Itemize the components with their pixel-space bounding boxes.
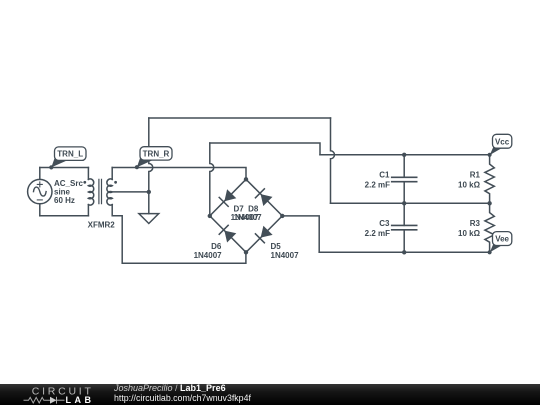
node TRN_R flag	[135, 147, 172, 170]
svg-text:http://circuitlab.com/ch7wnuv3: http://circuitlab.com/ch7wnuv3fkp4f	[114, 393, 251, 403]
svg-text:D6: D6	[211, 242, 222, 251]
logo wire+resistor+diode	[24, 397, 65, 404]
svg-text:C3: C3	[379, 219, 390, 228]
wire right vertical with hop to middle rail	[331, 118, 335, 203]
junction dots	[147, 153, 492, 255]
diode bridge edges	[210, 179, 282, 252]
svg-text:2.2 mF: 2.2 mF	[365, 180, 390, 189]
wire AC loop right top lead	[87, 168, 89, 180]
svg-text:TRN_L: TRN_L	[57, 150, 83, 159]
transformer XFMR2	[88, 179, 112, 205]
svg-text:1N4007: 1N4007	[271, 251, 300, 260]
capacitor C1	[392, 155, 417, 204]
svg-text:D5: D5	[271, 242, 282, 251]
svg-text:Vee: Vee	[495, 235, 509, 244]
svg-text:C1: C1	[379, 170, 390, 179]
wire XFMR secondary top lead	[111, 168, 113, 180]
wire bridge right to bottom rail	[282, 216, 319, 252]
wire XFMR secondary top to bridge top	[112, 168, 246, 180]
ground	[139, 214, 159, 224]
svg-text:R3: R3	[470, 219, 481, 228]
labels	[54, 170, 481, 259]
wire top long	[149, 117, 331, 119]
diode D7	[219, 189, 237, 207]
wire AC loop left vertical bottom	[39, 204, 41, 216]
svg-text:2.2 mF: 2.2 mF	[365, 229, 390, 238]
svg-text:10 kΩ: 10 kΩ	[458, 229, 481, 238]
svg-text:1N4007: 1N4007	[194, 251, 223, 260]
svg-text:LAB: LAB	[66, 395, 95, 405]
svg-text:XFMR2: XFMR2	[88, 220, 116, 229]
svg-text:60 Hz: 60 Hz	[54, 196, 75, 205]
wire ground stub	[148, 192, 150, 214]
diode D5	[255, 226, 273, 244]
wire second top	[210, 143, 320, 155]
wire XFMR secondary bottom lead	[112, 205, 246, 264]
node Vee flag	[488, 232, 512, 255]
svg-text:R1: R1	[470, 170, 481, 179]
svg-text:JoshuaPrecilio / Lab1_Pre6: JoshuaPrecilio / Lab1_Pre6	[113, 383, 226, 393]
svg-text:TRN_R: TRN_R	[143, 149, 170, 158]
wire top rail	[320, 154, 490, 156]
resistor R1	[485, 155, 494, 204]
diode D8	[255, 188, 273, 206]
wire AC loop bottom lead	[87, 205, 89, 216]
wire bridge left vertical with hop	[210, 143, 214, 216]
node Vcc flag	[488, 134, 512, 157]
wire bottom rail	[319, 251, 489, 253]
wire AC loop bottom	[40, 215, 89, 217]
AC source AC_Src	[28, 179, 52, 203]
wire AC loop top	[40, 167, 89, 169]
capacitor C3	[392, 203, 417, 252]
diode D6	[219, 225, 237, 243]
svg-text:10 kΩ: 10 kΩ	[458, 180, 481, 189]
footer bar	[0, 383, 540, 405]
resistor R3	[485, 203, 494, 252]
wire middle rail	[331, 202, 490, 204]
node TRN_L flag	[49, 147, 86, 170]
transformer phase dots	[83, 181, 117, 184]
svg-text:Vcc: Vcc	[495, 137, 510, 146]
svg-text:1N4007: 1N4007	[234, 213, 263, 222]
wire TRN_R vertical with hop	[149, 118, 153, 192]
wire XFMR center tap	[112, 191, 149, 193]
wire AC loop left vertical top	[39, 168, 41, 180]
